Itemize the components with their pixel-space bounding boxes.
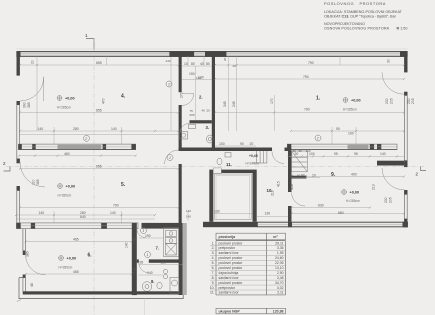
svg-text:13,10: 13,10: [275, 266, 284, 270]
svg-text:140: 140: [380, 152, 386, 156]
top wall pier at wall A: [169, 51, 194, 57]
door room 1 (right wall): [382, 72, 404, 94]
svg-text:345: 345: [223, 101, 227, 107]
room 7 sink bowls: [166, 231, 177, 237]
door room 10 to 9: [292, 192, 306, 206]
svg-text:6.: 6.: [212, 266, 215, 270]
room 7 top wall: [142, 223, 183, 229]
svg-text:170: 170: [270, 98, 274, 104]
svg-text:9.: 9.: [331, 172, 336, 178]
circled door mark 1 (room 5): [167, 155, 173, 161]
svg-text:95: 95: [354, 152, 358, 156]
room 11 bottom wall: [209, 170, 213, 173]
svg-text:470: 470: [102, 98, 106, 104]
svg-text:140: 140: [133, 267, 137, 273]
svg-text:230: 230: [407, 98, 411, 104]
svg-text:100: 100: [348, 131, 354, 135]
svg-text:7.: 7.: [212, 271, 215, 275]
svg-text:20: 20: [207, 109, 211, 113]
room 11 top wall right part: [215, 148, 272, 152]
svg-text:ukupno NGP: ukupno NGP: [219, 310, 241, 314]
svg-text:120: 120: [196, 76, 201, 80]
left wall jamb below door room 6: [23, 275, 26, 279]
svg-text:655: 655: [96, 164, 102, 168]
svg-text:140: 140: [110, 211, 116, 215]
svg-text:100: 100: [219, 142, 225, 146]
svg-text:29,11: 29,11: [275, 241, 283, 245]
svg-text:40: 40: [200, 62, 204, 66]
window band room4/room5 (left): [18, 144, 135, 150]
svg-text:8.: 8.: [212, 276, 215, 280]
svg-text:80: 80: [191, 62, 195, 66]
right wall jamb at niche: [404, 160, 407, 167]
section marker 2 (left): [3, 161, 10, 171]
right wall bottom corner block: [404, 219, 407, 228]
void right wall: [253, 173, 257, 222]
ledge line above bottom-left outer corner: [19, 277, 26, 279]
svg-text:60: 60: [297, 174, 301, 178]
section line 2-2: [6, 166, 424, 168]
rooms 7|8 wall: [137, 259, 139, 262]
svg-text:630: 630: [318, 203, 324, 207]
svg-text:1.: 1.: [212, 241, 215, 245]
svg-text:1: 1: [143, 229, 145, 233]
circled door mark 1 (room 7): [141, 228, 147, 234]
door room 5/11 (wall A): [165, 150, 179, 164]
svg-text:sanitarni čvor: sanitarni čvor: [219, 276, 240, 280]
svg-text:2: 2: [316, 137, 319, 141]
entry steps room 11: [253, 151, 267, 163]
svg-text:OSNOVA POSLOVNOG PROSTORA: OSNOVA POSLOVNOG PROSTORA: [324, 26, 390, 30]
svg-text:140: 140: [111, 127, 117, 131]
door room 11 to 10: [272, 152, 284, 164]
svg-text:čajna kuhinja: čajna kuhinja: [219, 271, 239, 275]
level mark room 9: [342, 190, 360, 203]
right wall double line room 9: [403, 195, 405, 219]
room 5 dims: [20, 168, 179, 170]
below band right: [287, 155, 404, 157]
room 8 wc: [157, 282, 162, 289]
svg-text:H=285cm: H=285cm: [59, 266, 73, 270]
svg-text:110: 110: [161, 260, 167, 264]
svg-text:460: 460: [64, 152, 70, 156]
room 3 cistern shelf: [189, 125, 196, 129]
svg-text:205: 205: [388, 197, 392, 203]
svg-text:80: 80: [206, 62, 210, 66]
room 10 dims: [292, 177, 321, 179]
svg-text:640: 640: [80, 215, 86, 219]
right wall jamb below door room 1: [404, 92, 407, 96]
svg-text:4.: 4.: [212, 256, 215, 260]
svg-text:OBJEKAT C13, DUP "Topolica - B: OBJEKAT C13, DUP "Topolica - Bjeliši", B…: [324, 14, 397, 18]
svg-text:m²: m²: [273, 235, 278, 239]
svg-text:10.: 10.: [210, 286, 215, 290]
svg-text:140: 140: [38, 127, 44, 131]
room 6 dims: [26, 241, 132, 243]
svg-text:790: 790: [113, 203, 119, 207]
level mark room 4: [57, 96, 75, 110]
section marker 2 (right): [416, 167, 427, 177]
left wall upper (room 4): [17, 51, 20, 76]
top wall pier right corner: [400, 51, 408, 57]
bottom-left corner tick: [17, 300, 21, 302]
svg-text:100: 100: [306, 149, 311, 153]
void dims: [213, 213, 252, 215]
svg-text:H=285cm: H=285cm: [346, 199, 360, 203]
svg-text:465: 465: [73, 237, 79, 241]
interior wall B (x211.8) rooms 2/3 | room 1: [212, 51, 215, 148]
rooms 7/8 dims: [139, 237, 164, 239]
svg-text:30: 30: [387, 59, 391, 63]
svg-text:1: 1: [169, 156, 171, 160]
svg-text:poslovni prostor: poslovni prostor: [219, 281, 244, 285]
room 10 | room 9 wall: [288, 151, 292, 192]
svg-text:140: 140: [147, 271, 153, 275]
svg-text:pretprostor: pretprostor: [219, 286, 236, 290]
svg-text:+0,45: +0,45: [249, 154, 258, 158]
room 2 dims: [182, 65, 212, 67]
left wall jamb above door room 6: [23, 251, 26, 256]
right wall segment 1 (corner block): [404, 51, 407, 72]
svg-text:H=285cm: H=285cm: [57, 106, 71, 110]
svg-text:poslovni prostor: poslovni prostor: [219, 266, 244, 270]
svg-text:2,11: 2,11: [277, 291, 283, 295]
svg-text:210: 210: [271, 190, 275, 196]
svg-text:+0,00: +0,00: [351, 99, 361, 103]
svg-text:140: 140: [125, 242, 129, 248]
left wall jamb above door room 5: [17, 159, 20, 164]
svg-text:790: 790: [303, 75, 309, 79]
svg-text:280: 280: [73, 127, 79, 131]
room 1 bottom dims: [291, 130, 404, 132]
svg-text:680: 680: [338, 211, 344, 215]
title block top right: [324, 1, 407, 30]
svg-text:90: 90: [293, 149, 297, 153]
svg-text:190: 190: [145, 234, 151, 238]
void left wall: [209, 173, 213, 222]
closet bottom wall: [292, 176, 307, 179]
svg-text:140: 140: [39, 211, 45, 215]
interior wall A (x178.6) rooms 4|2, 5|11 column: [179, 51, 182, 92]
rooms 7/8 right wall + outer skin: [179, 223, 183, 295]
svg-text:3,36: 3,36: [277, 246, 284, 250]
right wall jamb below door room 9: [404, 190, 407, 195]
svg-text:790: 790: [304, 107, 310, 111]
svg-text:655: 655: [96, 61, 102, 65]
svg-text:sanitarni čvor: sanitarni čvor: [219, 291, 240, 295]
wall rooms 2|3: [190, 120, 212, 123]
svg-text:8.: 8.: [151, 279, 155, 284]
svg-text:1: 1: [147, 253, 149, 257]
svg-text:418: 418: [290, 184, 294, 190]
room 7 kitchen counter: [164, 228, 179, 257]
svg-text:385: 385: [26, 251, 30, 257]
level mark room 5: [58, 184, 76, 198]
circled door mark 1 (room 4 side): [166, 81, 172, 87]
svg-text:7.: 7.: [156, 246, 160, 251]
svg-text:400: 400: [351, 172, 357, 176]
left wall jamb below door room 5: [17, 186, 20, 191]
svg-text:205: 205: [190, 113, 195, 117]
notch outer edge line: [185, 223, 187, 295]
svg-text:205: 205: [411, 98, 415, 104]
svg-text:poslovni prostor: poslovni prostor: [219, 241, 244, 245]
room 7 stove: [166, 244, 177, 256]
room 11 wc: [217, 158, 222, 165]
svg-text:40: 40: [202, 109, 206, 113]
svg-text:205: 205: [389, 98, 393, 104]
svg-text:20: 20: [31, 60, 35, 64]
svg-text:385: 385: [36, 179, 40, 185]
svg-text:95: 95: [334, 152, 338, 156]
svg-text:H=285cm: H=285cm: [58, 194, 72, 198]
rooms 6|7 wall: [132, 223, 137, 295]
svg-text:245: 245: [232, 101, 236, 107]
svg-text:prostorija: prostorija: [219, 235, 237, 239]
svg-text:9.: 9.: [212, 281, 215, 285]
svg-text:270: 270: [180, 92, 184, 98]
circled door mark 7 (room 7): [145, 252, 151, 258]
bottom band piers: [288, 222, 292, 227]
svg-text:20: 20: [312, 173, 316, 177]
svg-text:95: 95: [140, 260, 144, 264]
svg-text:+0,00: +0,00: [350, 191, 360, 195]
left wall jamb below door room 4: [17, 101, 20, 105]
circled window mark 2 (room 4): [84, 135, 90, 141]
svg-text:385: 385: [27, 102, 31, 108]
room 8 vent marks: [163, 269, 167, 273]
right wall niche stub: [377, 161, 404, 166]
svg-text:655: 655: [96, 108, 102, 112]
svg-text:790: 790: [308, 61, 314, 65]
svg-text:2,90: 2,90: [277, 271, 284, 275]
svg-text:+0,00: +0,00: [67, 257, 77, 261]
svg-text:130: 130: [265, 212, 271, 216]
below band left: [19, 155, 136, 157]
svg-text:sanitarni čvor: sanitarni čvor: [219, 251, 240, 255]
svg-text:PROSTORA: PROSTORA: [360, 1, 386, 6]
svg-text:+0,00: +0,00: [66, 185, 76, 189]
left wall room 6 lower double line: [22, 278, 24, 292]
svg-text:140: 140: [166, 59, 171, 63]
table total row: [216, 308, 286, 314]
room 9 dims: [306, 176, 404, 178]
door room 7 (top): [137, 229, 146, 238]
level mark room 6: [59, 256, 77, 270]
svg-text:2.: 2.: [199, 95, 203, 100]
svg-text:22,05: 22,05: [275, 261, 284, 265]
top wall pier at wall B: [205, 51, 226, 57]
svg-text:1,95: 1,95: [277, 251, 284, 255]
top wall window band: [17, 52, 407, 57]
svg-text:6.: 6.: [88, 253, 93, 259]
room 4 top dim line: [20, 64, 179, 66]
door room 4 (left wall): [20, 77, 44, 101]
void inner outline: [214, 174, 251, 220]
left wall room 6 upper double line: [22, 229, 24, 251]
door room 6 (left wall): [26, 255, 46, 275]
svg-text:120,98: 120,98: [273, 310, 284, 314]
svg-text:140: 140: [186, 215, 191, 219]
bottom wall right section: dark part near void: [203, 222, 257, 227]
svg-text:11.: 11.: [210, 291, 215, 295]
svg-text:3.: 3.: [206, 125, 210, 130]
svg-text:2.: 2.: [212, 246, 215, 250]
room 1 top dim lines: [215, 64, 404, 66]
svg-text:H=285cm: H=285cm: [343, 108, 357, 112]
room 11 sink: [225, 153, 231, 158]
svg-text:5.: 5.: [212, 261, 215, 265]
svg-text:10: 10: [184, 62, 188, 66]
top wall pier left corner: [17, 51, 21, 57]
room 8 shower: [142, 282, 152, 292]
room 3 sink: [180, 132, 188, 140]
svg-text:145: 145: [133, 237, 137, 243]
svg-text:24,60: 24,60: [275, 256, 284, 260]
window band room5/room6: [16, 223, 138, 229]
svg-text:pretprostor: pretprostor: [219, 246, 236, 250]
svg-text:20: 20: [223, 57, 227, 61]
svg-text:+0,00: +0,00: [65, 97, 75, 101]
svg-text:90: 90: [301, 173, 305, 177]
window band room1/room9 (right): [287, 144, 397, 150]
door room 5 (left wall): [20, 162, 45, 187]
svg-text:60: 60: [299, 149, 303, 153]
svg-text:5.: 5.: [121, 182, 126, 188]
bottom wall left section (thick): [23, 291, 184, 294]
svg-text:1: 1: [168, 83, 170, 87]
wall room3 bottom / room 11 top: [179, 148, 215, 152]
svg-text:48: 48: [30, 283, 34, 287]
svg-text:H=240cm: H=240cm: [246, 162, 260, 166]
circled window mark 2 (room 1): [315, 135, 321, 141]
room 4 bottom dims: [20, 130, 179, 132]
svg-text:20: 20: [290, 174, 294, 178]
svg-text:130: 130: [214, 209, 220, 213]
svg-text:poslovni prostor: poslovni prostor: [219, 261, 244, 265]
door room 11 threshold: [213, 168, 221, 173]
level mark room 1: [343, 98, 361, 112]
closet room 9 corner: [292, 151, 308, 172]
room 11 dims: [215, 145, 256, 147]
svg-text:40: 40: [233, 64, 237, 68]
left wall double line room 4: [16, 105, 18, 159]
section marker 1 (top): [85, 33, 94, 50]
svg-text:3,48: 3,48: [277, 276, 284, 280]
svg-text:140: 140: [186, 209, 191, 213]
svg-text:20: 20: [250, 142, 254, 146]
bottom-left outer outline: [19, 278, 183, 299]
svg-text:190: 190: [189, 72, 195, 76]
door room 9 (right wall): [382, 168, 404, 190]
svg-text:2: 2: [84, 137, 87, 141]
svg-text:90: 90: [336, 127, 340, 131]
door room 2 (wall A): [182, 93, 194, 95]
door room 3 (rooms 2|3 wall): [180, 123, 190, 133]
svg-text:34,70: 34,70: [275, 281, 284, 285]
right wall double line room 1: [403, 96, 405, 161]
svg-text:1.: 1.: [316, 96, 321, 102]
room 3 wc: [207, 135, 214, 143]
svg-text:11.: 11.: [226, 162, 232, 167]
svg-text:4,02: 4,02: [277, 286, 284, 290]
room 4 mid dim: [20, 112, 179, 114]
svg-text:90: 90: [240, 142, 244, 146]
svg-text:POSLOVNOG: POSLOVNOG: [324, 1, 354, 6]
svg-text:4.: 4.: [121, 94, 126, 100]
bottom wall right section: window band: [257, 222, 407, 227]
svg-text:R 1:50: R 1:50: [397, 26, 408, 30]
svg-text:poslovni prostor: poslovni prostor: [219, 256, 244, 260]
svg-text:3.: 3.: [212, 251, 215, 255]
door room 8: [139, 263, 149, 273]
svg-text:213: 213: [372, 184, 376, 190]
svg-text:465: 465: [73, 270, 79, 274]
room 8 washing machine: [170, 278, 179, 294]
extension line below building: [144, 299, 146, 315]
section line 1-1: [93, 38, 95, 315]
left wall double line room 5: [16, 191, 18, 223]
svg-text:415: 415: [277, 181, 281, 187]
